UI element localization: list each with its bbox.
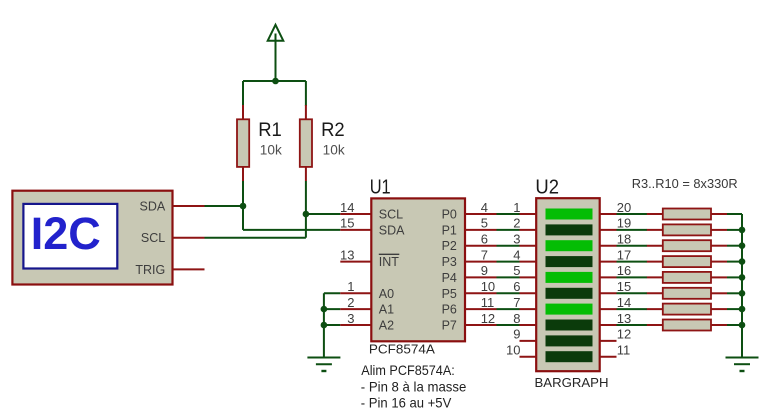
svg-text:14: 14 bbox=[617, 295, 631, 310]
pin R3 left bbox=[647, 213, 663, 215]
pin R1 bottom bbox=[242, 167, 244, 181]
led bar 10 bbox=[546, 351, 593, 362]
resistor R10 bbox=[663, 320, 711, 331]
ground left bbox=[307, 358, 340, 372]
pin U1-P5 stub bbox=[465, 292, 497, 294]
wire SDA to U1 pin15 bbox=[243, 229, 340, 231]
svg-text:12: 12 bbox=[481, 311, 495, 326]
pin R8 right bbox=[711, 292, 727, 294]
svg-text:10: 10 bbox=[506, 343, 520, 358]
wire U2 to R9 bbox=[617, 308, 648, 310]
wire P4 to U2 bbox=[497, 276, 520, 278]
pin R2 top bbox=[305, 105, 307, 120]
pin U2-1 bbox=[520, 213, 537, 215]
pin U2-5 bbox=[520, 276, 537, 278]
led bar 6 bbox=[546, 288, 593, 299]
pin U2-7 bbox=[520, 308, 537, 310]
I2C block body bbox=[12, 191, 172, 285]
wire R9 to gnd rail bbox=[727, 308, 742, 310]
wire U2 to R8 bbox=[617, 292, 648, 294]
pin U2-8 bbox=[520, 324, 537, 326]
wire P7 to U2 bbox=[497, 324, 520, 326]
wire P6 to U2 bbox=[497, 308, 520, 310]
pin U1-2 bbox=[340, 308, 371, 310]
svg-text:14: 14 bbox=[340, 200, 354, 215]
svg-text:P7: P7 bbox=[442, 319, 457, 333]
junction gnd rail 6 bbox=[739, 306, 746, 313]
wire R1 top bbox=[242, 81, 244, 106]
wire R2 top bbox=[305, 81, 307, 106]
svg-text:SDA: SDA bbox=[379, 223, 405, 237]
led bar 2 bbox=[546, 224, 593, 235]
junction gnd rail 7 bbox=[739, 322, 746, 329]
svg-text:15: 15 bbox=[617, 279, 631, 294]
pin U1-P3 stub bbox=[465, 261, 497, 263]
svg-text:- Pin 16 au +5V: - Pin 16 au +5V bbox=[361, 394, 452, 410]
led bar 4 bbox=[546, 256, 593, 267]
pin U1-14 bbox=[340, 213, 371, 215]
pin R3 right bbox=[711, 213, 727, 215]
wire P5 to U2 bbox=[497, 292, 520, 294]
wire SCL vertical bbox=[305, 181, 307, 238]
resistor R5 bbox=[663, 240, 711, 251]
svg-text:9: 9 bbox=[513, 327, 520, 342]
led bar 1 bbox=[546, 209, 593, 220]
wire U2 to R3 bbox=[617, 213, 648, 215]
svg-text:U1: U1 bbox=[370, 176, 391, 199]
pin U1-15 bbox=[340, 229, 371, 231]
resistor R3 bbox=[663, 209, 711, 220]
pin R4 left bbox=[647, 229, 663, 231]
wire SCL to U1 pin14 bbox=[306, 213, 340, 215]
svg-text:P6: P6 bbox=[442, 303, 457, 317]
wire R4 to gnd rail bbox=[727, 229, 742, 231]
led bar 5 bbox=[546, 272, 593, 283]
svg-text:16: 16 bbox=[617, 263, 631, 278]
svg-text:20: 20 bbox=[617, 200, 631, 215]
pin R4 right bbox=[711, 229, 727, 231]
led bar 8 bbox=[546, 320, 593, 331]
junction A1 bbox=[321, 306, 328, 313]
svg-text:P1: P1 bbox=[442, 223, 457, 237]
svg-text:6: 6 bbox=[513, 279, 520, 294]
resistor R9 bbox=[663, 304, 711, 315]
wire R1 bottom vertical bbox=[242, 181, 244, 230]
wire SCL horizontal bbox=[205, 237, 306, 239]
svg-text:P0: P0 bbox=[442, 208, 457, 222]
svg-text:P2: P2 bbox=[442, 239, 457, 253]
pin R2 bottom bbox=[305, 167, 307, 181]
svg-text:2: 2 bbox=[347, 295, 354, 310]
pin R5 right bbox=[711, 245, 727, 247]
junction A2 bbox=[321, 322, 328, 329]
pin R7 left bbox=[647, 276, 663, 278]
svg-text:I2C: I2C bbox=[31, 208, 101, 259]
wire U2 to R5 bbox=[617, 245, 648, 247]
wire A2 bbox=[324, 324, 340, 326]
resistor R2 bbox=[300, 119, 312, 167]
pin I2C TRIG bbox=[173, 268, 205, 270]
svg-text:U2: U2 bbox=[535, 176, 559, 199]
ic U2 body bbox=[536, 198, 600, 371]
pin R6 right bbox=[711, 261, 727, 263]
junction gnd rail 2 bbox=[739, 242, 746, 249]
pin U2-10 bbox=[520, 356, 537, 358]
pin U2-2 bbox=[520, 229, 537, 231]
svg-text:P5: P5 bbox=[442, 287, 457, 301]
svg-text:11: 11 bbox=[481, 295, 495, 310]
pin U2-18 bbox=[600, 245, 617, 247]
pin U2-3 bbox=[520, 245, 537, 247]
pin U1-P4 stub bbox=[465, 276, 497, 278]
wire R5 to gnd rail bbox=[727, 245, 742, 247]
pin U1-13 bbox=[340, 261, 371, 263]
I2C inner white box bbox=[23, 204, 117, 269]
wire ground rail vertical bbox=[741, 214, 743, 358]
wire R10 to gnd rail bbox=[727, 324, 742, 326]
svg-text:R2: R2 bbox=[321, 119, 345, 141]
pin U1-3 bbox=[340, 324, 371, 326]
svg-text:5: 5 bbox=[513, 263, 520, 278]
resistor R6 bbox=[663, 256, 711, 267]
pin U2-13 bbox=[600, 324, 617, 326]
pin U1-P1 stub bbox=[465, 229, 497, 231]
pin I2C SCL bbox=[173, 237, 205, 239]
wire A0 bbox=[324, 292, 340, 294]
svg-text:8: 8 bbox=[513, 311, 520, 326]
pin I2C SDA bbox=[173, 205, 205, 207]
wire U2 to R6 bbox=[617, 261, 648, 263]
svg-text:SCL: SCL bbox=[379, 208, 403, 222]
pin U1-1 bbox=[340, 292, 371, 294]
resistor R8 bbox=[663, 288, 711, 299]
svg-text:INT: INT bbox=[379, 255, 400, 269]
INT overline bbox=[379, 253, 400, 255]
svg-text:13: 13 bbox=[617, 311, 631, 326]
svg-text:4: 4 bbox=[481, 200, 488, 215]
ic U1 body bbox=[371, 198, 465, 341]
wire P1 to U2 bbox=[497, 229, 520, 231]
pin R5 left bbox=[647, 245, 663, 247]
svg-text:5: 5 bbox=[481, 216, 488, 231]
pin U2-16 bbox=[600, 276, 617, 278]
svg-text:7: 7 bbox=[481, 247, 488, 262]
wire A1 bbox=[324, 308, 340, 310]
svg-text:BARGRAPH: BARGRAPH bbox=[535, 375, 609, 390]
pin U2-17 bbox=[600, 261, 617, 263]
junction gnd rail 5 bbox=[739, 290, 746, 297]
junction power rail bbox=[272, 78, 279, 85]
svg-text:TRIG: TRIG bbox=[135, 263, 165, 277]
svg-text:11: 11 bbox=[617, 343, 631, 358]
pin R9 left bbox=[647, 308, 663, 310]
pin R10 right bbox=[711, 324, 727, 326]
led bar 9 bbox=[546, 335, 593, 346]
pin U2-12 bbox=[600, 340, 617, 342]
svg-text:A2: A2 bbox=[379, 319, 394, 333]
pin U2-19 bbox=[600, 229, 617, 231]
svg-text:R1: R1 bbox=[258, 119, 282, 141]
pin U2-20 bbox=[600, 213, 617, 215]
svg-text:R3..R10 = 8x330R: R3..R10 = 8x330R bbox=[632, 176, 738, 191]
svg-text:1: 1 bbox=[347, 279, 354, 294]
svg-text:10k: 10k bbox=[260, 143, 282, 158]
ground right bbox=[726, 358, 759, 372]
wire P3 to U2 bbox=[497, 261, 520, 263]
pin U2-15 bbox=[600, 292, 617, 294]
pin U2-4 bbox=[520, 261, 537, 263]
pin R7 right bbox=[711, 276, 727, 278]
led bar 7 bbox=[546, 304, 593, 315]
junction gnd rail 4 bbox=[739, 274, 746, 281]
power +5V symbol bbox=[268, 25, 284, 81]
svg-text:10k: 10k bbox=[323, 143, 345, 158]
wire R7 to gnd rail bbox=[727, 276, 742, 278]
pin U2-11 bbox=[600, 356, 617, 358]
svg-text:4: 4 bbox=[513, 247, 520, 262]
pin U2-6 bbox=[520, 292, 537, 294]
svg-text:7: 7 bbox=[513, 295, 520, 310]
wire U2 to R4 bbox=[617, 229, 648, 231]
svg-text:- Pin 8 à la masse: - Pin 8 à la masse bbox=[361, 378, 467, 394]
pin R8 left bbox=[647, 292, 663, 294]
svg-text:3: 3 bbox=[513, 232, 520, 247]
svg-text:6: 6 bbox=[481, 232, 488, 247]
svg-text:17: 17 bbox=[617, 247, 631, 262]
svg-text:PCF8574A: PCF8574A bbox=[369, 342, 435, 357]
pin R6 left bbox=[647, 261, 663, 263]
svg-text:1: 1 bbox=[513, 200, 520, 215]
pin U2-9 bbox=[520, 340, 537, 342]
wire P0 to U2 bbox=[497, 213, 520, 215]
junction SDA-R1 bbox=[240, 203, 247, 210]
svg-text:A1: A1 bbox=[379, 303, 394, 317]
junction gnd rail 1 bbox=[739, 227, 746, 234]
wire U2 to R10 bbox=[617, 324, 648, 326]
pin U1-P7 stub bbox=[465, 324, 497, 326]
svg-text:P3: P3 bbox=[442, 255, 457, 269]
svg-text:9: 9 bbox=[481, 263, 488, 278]
svg-text:13: 13 bbox=[340, 247, 354, 262]
svg-text:Alim PCF8574A:: Alim PCF8574A: bbox=[361, 362, 455, 378]
wire R3 to gnd rail bbox=[727, 213, 742, 215]
wire power rail bbox=[243, 80, 306, 82]
pin R10 left bbox=[647, 324, 663, 326]
resistor R7 bbox=[663, 272, 711, 283]
svg-text:15: 15 bbox=[340, 216, 354, 231]
svg-text:19: 19 bbox=[617, 216, 631, 231]
svg-text:10: 10 bbox=[481, 279, 495, 294]
svg-text:2: 2 bbox=[513, 216, 520, 231]
wire A-net vertical bbox=[323, 293, 325, 357]
resistor R1 bbox=[237, 119, 249, 167]
wire P2 to U2 bbox=[497, 245, 520, 247]
junction gnd rail 3 bbox=[739, 258, 746, 265]
svg-text:P4: P4 bbox=[442, 271, 457, 285]
pin U2-14 bbox=[600, 308, 617, 310]
wire R8 to gnd rail bbox=[727, 292, 742, 294]
pin U1-P2 stub bbox=[465, 245, 497, 247]
wire SDA horizontal bbox=[205, 205, 244, 207]
svg-text:12: 12 bbox=[617, 327, 631, 342]
pin U1-P6 stub bbox=[465, 308, 497, 310]
pin R1 top bbox=[242, 105, 244, 120]
svg-text:18: 18 bbox=[617, 232, 631, 247]
svg-text:A0: A0 bbox=[379, 287, 394, 301]
svg-text:SCL: SCL bbox=[141, 231, 165, 245]
pin U1-P0 stub bbox=[465, 213, 497, 215]
led bar 3 bbox=[546, 240, 593, 251]
junction SCL-R2 bbox=[303, 211, 310, 218]
wire R6 to gnd rail bbox=[727, 261, 742, 263]
resistor R4 bbox=[663, 224, 711, 235]
pin R9 right bbox=[711, 308, 727, 310]
wire U2 to R7 bbox=[617, 276, 648, 278]
svg-text:3: 3 bbox=[347, 311, 354, 326]
svg-text:SDA: SDA bbox=[139, 199, 165, 213]
